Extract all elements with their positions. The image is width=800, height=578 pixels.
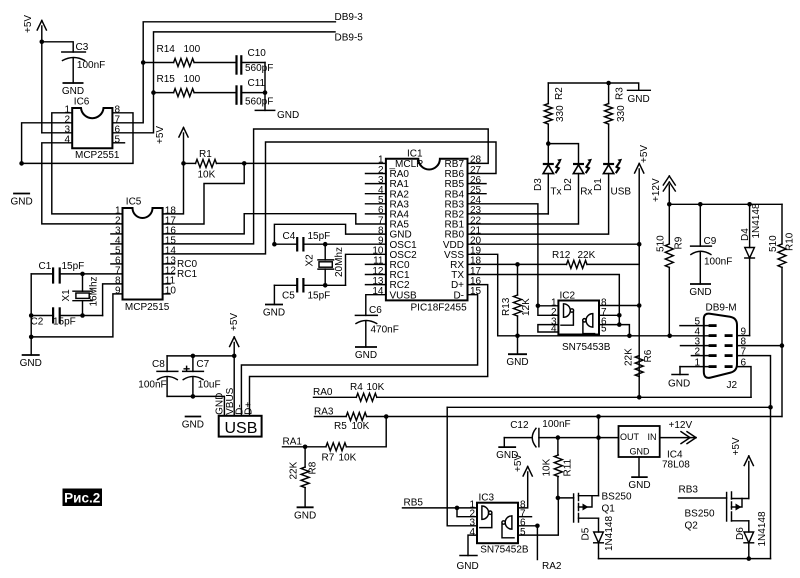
- wire L3 riser to OUT and Q1: [598, 417, 600, 496]
- junction: [303, 445, 308, 450]
- junction: [596, 414, 601, 419]
- svg-text:C9: C9: [704, 236, 717, 247]
- svg-text:C7: C7: [196, 359, 209, 370]
- svg-text:RC1: RC1: [177, 269, 197, 280]
- svg-text:IC3: IC3: [479, 493, 495, 504]
- svg-text:+12V: +12V: [651, 178, 662, 202]
- svg-text:R7: R7: [322, 453, 335, 464]
- svg-text:GND: GND: [668, 379, 690, 390]
- svg-text:GND: GND: [355, 350, 377, 361]
- wire IC2 pin1: [538, 305, 559, 307]
- junction: [384, 414, 389, 419]
- svg-text:D3: D3: [533, 178, 544, 191]
- IC IC3 SN75452B: [469, 493, 528, 556]
- junction: [151, 90, 156, 95]
- junction: [141, 60, 146, 65]
- svg-text:GND: GND: [263, 308, 285, 319]
- wire DB9 pin1 GND: [680, 367, 709, 375]
- junction: [29, 335, 34, 340]
- power +12V out: [660, 420, 696, 444]
- svg-text:R3: R3: [615, 87, 626, 100]
- junction: [455, 506, 460, 511]
- net label RA0: [313, 387, 333, 398]
- svg-text:USB: USB: [611, 187, 632, 198]
- svg-text:1N4148: 1N4148: [604, 516, 615, 551]
- junction: [191, 394, 196, 399]
- ground: [496, 447, 518, 461]
- junction: [232, 354, 237, 359]
- wire VDD: [468, 243, 640, 245]
- net label RB3: [679, 485, 699, 496]
- power +5V: [731, 437, 753, 498]
- svg-text:GND: GND: [630, 447, 651, 457]
- wire TX to IC2: [468, 275, 630, 336]
- svg-text:C2: C2: [31, 317, 44, 328]
- svg-text:C3: C3: [76, 42, 89, 53]
- svg-text:20Mhz: 20Mhz: [334, 247, 345, 277]
- resistor R14: [143, 44, 236, 67]
- svg-text:C10: C10: [248, 48, 267, 59]
- svg-text:RA3: RA3: [314, 406, 334, 417]
- svg-text:R11: R11: [563, 458, 574, 476]
- wire IC5 pin6 stub: [111, 263, 123, 265]
- wire DB9 pin6 to RA0 line: [737, 367, 751, 398]
- wire IC3 pin7 stub: [518, 516, 532, 518]
- svg-text:100nF: 100nF: [138, 380, 166, 391]
- resistor R4 10K: [314, 382, 752, 401]
- svg-text:1N4148: 1N4148: [751, 203, 762, 238]
- svg-text:22K: 22K: [578, 250, 596, 261]
- wire C2 to IC5 pin8: [103, 284, 123, 316]
- svg-text:10uF: 10uF: [198, 380, 221, 391]
- junction: [272, 242, 277, 247]
- svg-text:R15: R15: [157, 74, 176, 85]
- svg-text:+5V: +5V: [155, 126, 166, 144]
- svg-text:IC6: IC6: [74, 96, 90, 107]
- junction: [747, 202, 752, 207]
- wire IC1 stub: [366, 263, 386, 265]
- svg-text:R4: R4: [350, 382, 363, 393]
- capacitor C10: [237, 48, 274, 75]
- svg-text:GND: GND: [457, 561, 479, 572]
- ground: [628, 477, 650, 491]
- wire IC5 pin14 to IC1 pin27: [163, 142, 496, 254]
- svg-text:5: 5: [115, 134, 121, 145]
- wire IC2 pin3-4 jog: [538, 325, 559, 332]
- junction: [191, 354, 196, 359]
- wire: [273, 285, 275, 304]
- svg-text:D-: D-: [453, 290, 464, 301]
- svg-text:10K: 10K: [339, 453, 357, 464]
- svg-text:DB9-M: DB9-M: [706, 303, 737, 314]
- LED D1 USB: [468, 159, 632, 234]
- svg-text:R10: R10: [785, 232, 796, 251]
- junction: [29, 313, 34, 318]
- wire IC5 pin9 to GND: [31, 294, 122, 337]
- svg-text:470nF: 470nF: [371, 325, 399, 336]
- junction: [637, 395, 642, 400]
- transistor Q2 BS250: [679, 492, 749, 532]
- svg-text:RB5: RB5: [404, 498, 424, 509]
- svg-text:GND: GND: [294, 510, 316, 521]
- svg-text:GND: GND: [20, 358, 42, 369]
- svg-text:IC5: IC5: [126, 197, 142, 208]
- wire IC2 pin7 stub: [599, 314, 619, 316]
- svg-text:510: 510: [768, 235, 779, 252]
- capacitor C6: [355, 295, 398, 347]
- wire IC5 pin15 to IC1 pin28: [163, 129, 489, 244]
- net label RC1: [163, 269, 198, 280]
- svg-text:SN75453B: SN75453B: [562, 342, 611, 353]
- wire bottom bus: [599, 558, 771, 560]
- junction +5V node: [40, 40, 45, 45]
- svg-text:C6: C6: [369, 305, 382, 316]
- wire IC1 stub: [366, 193, 386, 195]
- resistor R15: [154, 74, 237, 97]
- wire DB9 pin7 down: [737, 356, 771, 559]
- svg-text:330: 330: [555, 105, 566, 122]
- svg-text:+5V: +5V: [639, 145, 650, 163]
- junction: [323, 242, 328, 247]
- resistor R1: [184, 149, 386, 181]
- junction: [747, 556, 752, 561]
- svg-text:5: 5: [520, 527, 526, 538]
- junction: [627, 334, 632, 339]
- svg-text:IN: IN: [648, 432, 657, 442]
- wire RB5 to IC3 pin1: [403, 507, 478, 509]
- svg-text:10K: 10K: [198, 170, 216, 181]
- svg-text:J2: J2: [727, 380, 738, 391]
- LED D2 Rx: [468, 159, 593, 224]
- junction: [546, 141, 551, 146]
- wire DB9 pin5 stub: [680, 325, 709, 327]
- svg-text:D5: D5: [581, 527, 592, 540]
- wire DB9 pin8 to R10: [737, 345, 782, 347]
- svg-text:D2: D2: [563, 178, 574, 191]
- wire IC1 pin25 stub: [468, 193, 487, 195]
- svg-text:C12: C12: [510, 420, 529, 431]
- wire IC2 pin6 stub: [599, 324, 619, 326]
- diode D6 1N4148: [735, 511, 768, 559]
- svg-text:510: 510: [656, 235, 667, 252]
- diode D4 1N4148: [740, 203, 762, 336]
- junction: [698, 202, 703, 207]
- capacitor C3: [62, 42, 105, 83]
- IC IC5 MCP2515: [115, 197, 176, 313]
- power +12V: [651, 176, 675, 204]
- wire IC1 stub: [366, 203, 386, 205]
- svg-text:GND: GND: [277, 110, 299, 121]
- svg-text:RB3: RB3: [679, 485, 699, 496]
- wire IC5 pin4 stub: [111, 243, 123, 245]
- svg-text:C8: C8: [152, 359, 165, 370]
- svg-text:R6: R6: [643, 349, 654, 362]
- ground: [294, 507, 316, 521]
- svg-text:GND: GND: [215, 393, 226, 415]
- power +5V: [23, 15, 46, 133]
- svg-text:BS250: BS250: [685, 509, 715, 520]
- resistor R3 330: [605, 83, 627, 163]
- wire DB9 pin2 stub: [691, 355, 708, 357]
- power +5V: [635, 145, 650, 398]
- svg-text:DB9-3: DB9-3: [335, 12, 364, 23]
- svg-text:C11: C11: [248, 78, 266, 89]
- wire IC3 pin2 jog: [457, 508, 477, 517]
- junction: [667, 202, 672, 207]
- resistor R6 22K: [624, 348, 655, 377]
- wire VSS GND line: [468, 254, 709, 335]
- svg-text:10: 10: [165, 285, 177, 296]
- svg-text:12K: 12K: [521, 298, 532, 316]
- svg-text:USB: USB: [225, 420, 258, 437]
- power +5V: [513, 454, 532, 508]
- svg-text:X1: X1: [61, 289, 72, 302]
- ground: [457, 556, 479, 573]
- resistor R2 330: [544, 83, 566, 163]
- wire DB9-5 net: [113, 32, 364, 133]
- capacitor C1: [31, 261, 122, 284]
- wire IC1 pin26 stub: [468, 183, 487, 185]
- IC IC2 SN75453B: [551, 291, 611, 354]
- svg-text:16Mhz: 16Mhz: [89, 276, 100, 306]
- wire GND rail: [22, 113, 133, 164]
- capacitor C11: [237, 78, 274, 108]
- svg-text:BS250: BS250: [602, 492, 632, 503]
- figure label Рис.2: [63, 489, 103, 507]
- svg-text:10K: 10K: [542, 458, 553, 476]
- junction: [637, 303, 642, 308]
- svg-text:100nF: 100nF: [542, 419, 570, 430]
- svg-text:R14: R14: [157, 44, 176, 55]
- net label RA2: [542, 561, 562, 572]
- svg-text:15pF: 15pF: [308, 231, 331, 242]
- junction: [637, 242, 642, 247]
- wire IC6 pin2 to GND: [22, 123, 73, 164]
- svg-text:+5V: +5V: [731, 437, 742, 455]
- svg-text:Q1: Q1: [602, 504, 616, 515]
- wire: [42, 42, 73, 52]
- wire IC1 stub: [366, 213, 386, 215]
- capacitor C9: [691, 204, 733, 284]
- svg-text:10K: 10K: [367, 382, 385, 393]
- svg-text:GND: GND: [689, 287, 711, 298]
- ground: [182, 417, 204, 431]
- wire IC6 pin3: [42, 132, 72, 134]
- ground: [263, 305, 285, 319]
- svg-text:PIC18F2455: PIC18F2455: [411, 303, 468, 314]
- wire DB9 pin9 to D4: [737, 335, 750, 337]
- wire C5 to IC1 pin10: [346, 254, 386, 285]
- wire IC3 pin5 to R11: [518, 498, 558, 535]
- net label RA3: [314, 406, 334, 417]
- junction: [768, 405, 773, 410]
- wire USB D- to IC1 pin15: [241, 295, 477, 416]
- junction: [263, 90, 268, 95]
- resistor R5 10K: [315, 413, 782, 433]
- svg-text:4: 4: [469, 527, 475, 538]
- svg-text:+5V: +5V: [23, 15, 34, 33]
- svg-text:MCP2551: MCP2551: [75, 150, 120, 161]
- junction: [617, 322, 622, 327]
- IC IC6 MCP2551: [64, 96, 120, 161]
- junction: [556, 435, 561, 440]
- svg-text:22K: 22K: [289, 461, 300, 479]
- svg-text:15pF: 15pF: [53, 317, 76, 328]
- svg-text:100: 100: [184, 44, 201, 55]
- svg-text:330: 330: [616, 105, 627, 122]
- crystal X2 20Mhz: [305, 244, 346, 285]
- wire IC3 pin4 GND: [468, 535, 477, 555]
- svg-text:Rx: Rx: [580, 187, 592, 198]
- wire IC1 stub: [366, 173, 386, 175]
- wire IC5 pin3 stub: [111, 233, 123, 235]
- svg-text:RA1: RA1: [283, 437, 303, 448]
- wire IC6 pin5 stub: [112, 142, 124, 144]
- resistor R13 12K: [501, 264, 532, 354]
- junction: [667, 334, 672, 339]
- ground: [506, 354, 528, 368]
- svg-text:1N4148: 1N4148: [757, 511, 768, 546]
- svg-text:R12: R12: [552, 250, 571, 261]
- ground: [62, 83, 84, 97]
- wire IC5 pin18 to +5V: [163, 163, 184, 214]
- svg-text:5: 5: [601, 324, 607, 335]
- wire: [503, 438, 505, 448]
- junction: [780, 343, 785, 348]
- ground: [668, 375, 690, 390]
- svg-text:GND: GND: [628, 480, 650, 491]
- svg-text:DB9-5: DB9-5: [335, 32, 364, 43]
- wire R1 to IC5 pin17: [163, 163, 245, 224]
- svg-text:SN75452B: SN75452B: [480, 545, 529, 556]
- resistor R9 510: [656, 204, 685, 335]
- svg-text:R2: R2: [554, 87, 565, 100]
- power +5V: [229, 313, 240, 416]
- resistor R10 510: [768, 204, 796, 416]
- svg-text:GND: GND: [10, 197, 32, 208]
- capacitor C7 10uF: [183, 356, 221, 397]
- svg-text:IC1: IC1: [407, 148, 423, 159]
- wire IC1 pin24 RB3 to IC2: [468, 204, 538, 306]
- junction: [536, 304, 541, 309]
- ground: [10, 194, 32, 208]
- svg-text:R8: R8: [308, 461, 319, 474]
- wire IC4 GND: [638, 457, 640, 477]
- svg-text:78L08: 78L08: [662, 460, 690, 471]
- junction: [535, 524, 540, 529]
- resistor R12 22K: [468, 244, 640, 268]
- svg-text:10K: 10K: [352, 421, 370, 432]
- junction: [19, 161, 24, 166]
- ground: [20, 355, 42, 369]
- svg-text:560pF: 560pF: [245, 97, 273, 108]
- wire LED rail: [548, 83, 638, 90]
- svg-text:D1: D1: [593, 178, 604, 191]
- ground: [689, 284, 711, 298]
- wire R2 to D2: [548, 144, 578, 163]
- wire DB9-3 net: [113, 12, 364, 123]
- diode D5 1N4148: [581, 516, 616, 559]
- svg-text:15pF: 15pF: [308, 291, 331, 302]
- wire IC2 pin2 jog: [538, 306, 559, 316]
- wire IC1 stub: [366, 183, 386, 185]
- junction: [242, 161, 247, 166]
- junction: [515, 334, 520, 339]
- svg-text:22K: 22K: [624, 348, 635, 366]
- svg-text:RA2: RA2: [542, 561, 562, 572]
- svg-text:R5: R5: [334, 421, 347, 432]
- wire IC1 pin23 to D3: [468, 213, 549, 215]
- wire IC5 pin10 stub: [163, 293, 170, 295]
- wire IC1 stub: [366, 274, 386, 276]
- net label RB5: [404, 498, 424, 509]
- svg-text:100: 100: [184, 74, 201, 85]
- ground: [255, 110, 299, 121]
- net label RC0: [163, 259, 198, 270]
- svg-text:MCP2515: MCP2515: [125, 302, 170, 313]
- wire IC6 pin4 to IC5 pin2: [42, 143, 123, 224]
- junction: [80, 272, 85, 277]
- svg-text:D4: D4: [740, 228, 751, 241]
- capacitor C4: [274, 231, 386, 252]
- wire IC5 pin5 stub: [111, 253, 123, 255]
- wire: [264, 63, 266, 111]
- ground: [355, 347, 377, 361]
- capacitor C5: [274, 278, 345, 302]
- capacitor C12 100nF: [504, 419, 618, 447]
- svg-text:15pF: 15pF: [62, 261, 85, 272]
- wire IC5 pin16 to IC1 pin7: [163, 214, 386, 234]
- resistor R7 10K: [283, 417, 387, 464]
- svg-text:GND: GND: [182, 420, 204, 431]
- wire USB D+ to IC1 pin16: [250, 285, 488, 416]
- svg-text:GND: GND: [506, 357, 528, 368]
- wire IC6 pin1 to IC5 pin1: [52, 113, 123, 214]
- wire DB9 pin3 stub: [681, 345, 709, 347]
- svg-text:GND: GND: [496, 450, 518, 461]
- junction: [556, 496, 561, 501]
- svg-text:R9: R9: [674, 236, 685, 249]
- svg-text:R1: R1: [199, 149, 212, 160]
- svg-text:C5: C5: [282, 291, 295, 302]
- wire IC3 pin3 to L2: [447, 407, 477, 526]
- junction: [515, 262, 520, 267]
- svg-text:D6: D6: [735, 527, 746, 540]
- junction: [606, 81, 611, 86]
- svg-text:IC2: IC2: [560, 291, 576, 302]
- svg-text:GND: GND: [628, 94, 650, 105]
- connector J2 DB9-M: [694, 303, 746, 392]
- wire: [167, 396, 224, 415]
- svg-text:C1: C1: [39, 261, 52, 272]
- svg-text:100nF: 100nF: [704, 257, 732, 268]
- svg-text:Рис.2: Рис.2: [64, 490, 100, 505]
- junction: [323, 283, 328, 288]
- wire IC1 stub: [366, 284, 386, 286]
- wire L2: [447, 406, 770, 408]
- svg-text:R13: R13: [501, 297, 512, 316]
- wire IC2 pin8 +5V: [599, 305, 639, 307]
- svg-text:Tx: Tx: [550, 187, 561, 198]
- power +5V: [155, 126, 188, 164]
- svg-text:+12V: +12V: [669, 420, 693, 431]
- svg-text:OUT: OUT: [620, 432, 640, 442]
- junction: [617, 313, 622, 318]
- LED D3 Tx: [533, 159, 562, 214]
- svg-text:RA0: RA0: [313, 387, 333, 398]
- svg-text:+5V: +5V: [229, 313, 240, 331]
- wire IC5 pin11 stub: [163, 283, 170, 285]
